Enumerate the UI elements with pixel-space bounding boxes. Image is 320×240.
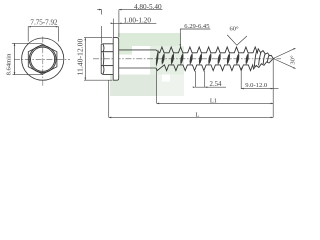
svg-text:60°: 60° xyxy=(229,25,239,32)
watermark logo xyxy=(110,33,184,96)
thread profile top xyxy=(156,47,273,59)
flange xyxy=(113,38,119,81)
dim 6.29-6.45 xyxy=(180,23,211,47)
dim 11.40-12.00 xyxy=(75,38,112,81)
side view centerline xyxy=(93,58,281,60)
washer face circle xyxy=(30,47,54,71)
dim 4.80-5.40 xyxy=(97,3,162,44)
svg-text:L1: L1 xyxy=(210,98,217,105)
dim 2.54 xyxy=(193,71,226,88)
flange outer circle xyxy=(22,38,64,80)
angle 60 deg xyxy=(227,25,247,45)
svg-text:L: L xyxy=(195,112,199,119)
svg-text:2.54: 2.54 xyxy=(210,81,222,88)
dim 1.00-1.20 xyxy=(111,17,157,38)
thread helix lines xyxy=(156,49,269,67)
svg-text:8.64min: 8.64min xyxy=(6,53,13,75)
svg-text:9.0-12.0: 9.0-12.0 xyxy=(245,82,268,89)
dim 7.75-7.92 xyxy=(28,18,58,41)
head chamfer circle xyxy=(29,46,56,73)
svg-text:7.75-7.92: 7.75-7.92 xyxy=(30,18,58,26)
dim 9.0-12.0 xyxy=(241,59,278,118)
dim 8.64min xyxy=(6,43,43,75)
hexagon xyxy=(28,44,57,74)
svg-text:30°: 30° xyxy=(290,55,297,65)
thread profile bottom xyxy=(156,59,273,71)
svg-text:4.80-5.40: 4.80-5.40 xyxy=(134,3,162,11)
dim L1 xyxy=(157,69,274,105)
angle 30 deg point xyxy=(273,48,296,68)
svg-text:6.29-6.45: 6.29-6.45 xyxy=(184,23,210,30)
svg-text:1.00-1.20: 1.00-1.20 xyxy=(123,17,151,25)
dim L xyxy=(109,80,274,118)
front view vertical centerline xyxy=(42,37,44,88)
hex head side outline xyxy=(101,44,113,75)
front view horizontal centerline xyxy=(14,58,70,60)
svg-text:11.40-12.00: 11.40-12.00 xyxy=(75,39,84,76)
shank xyxy=(119,50,156,68)
